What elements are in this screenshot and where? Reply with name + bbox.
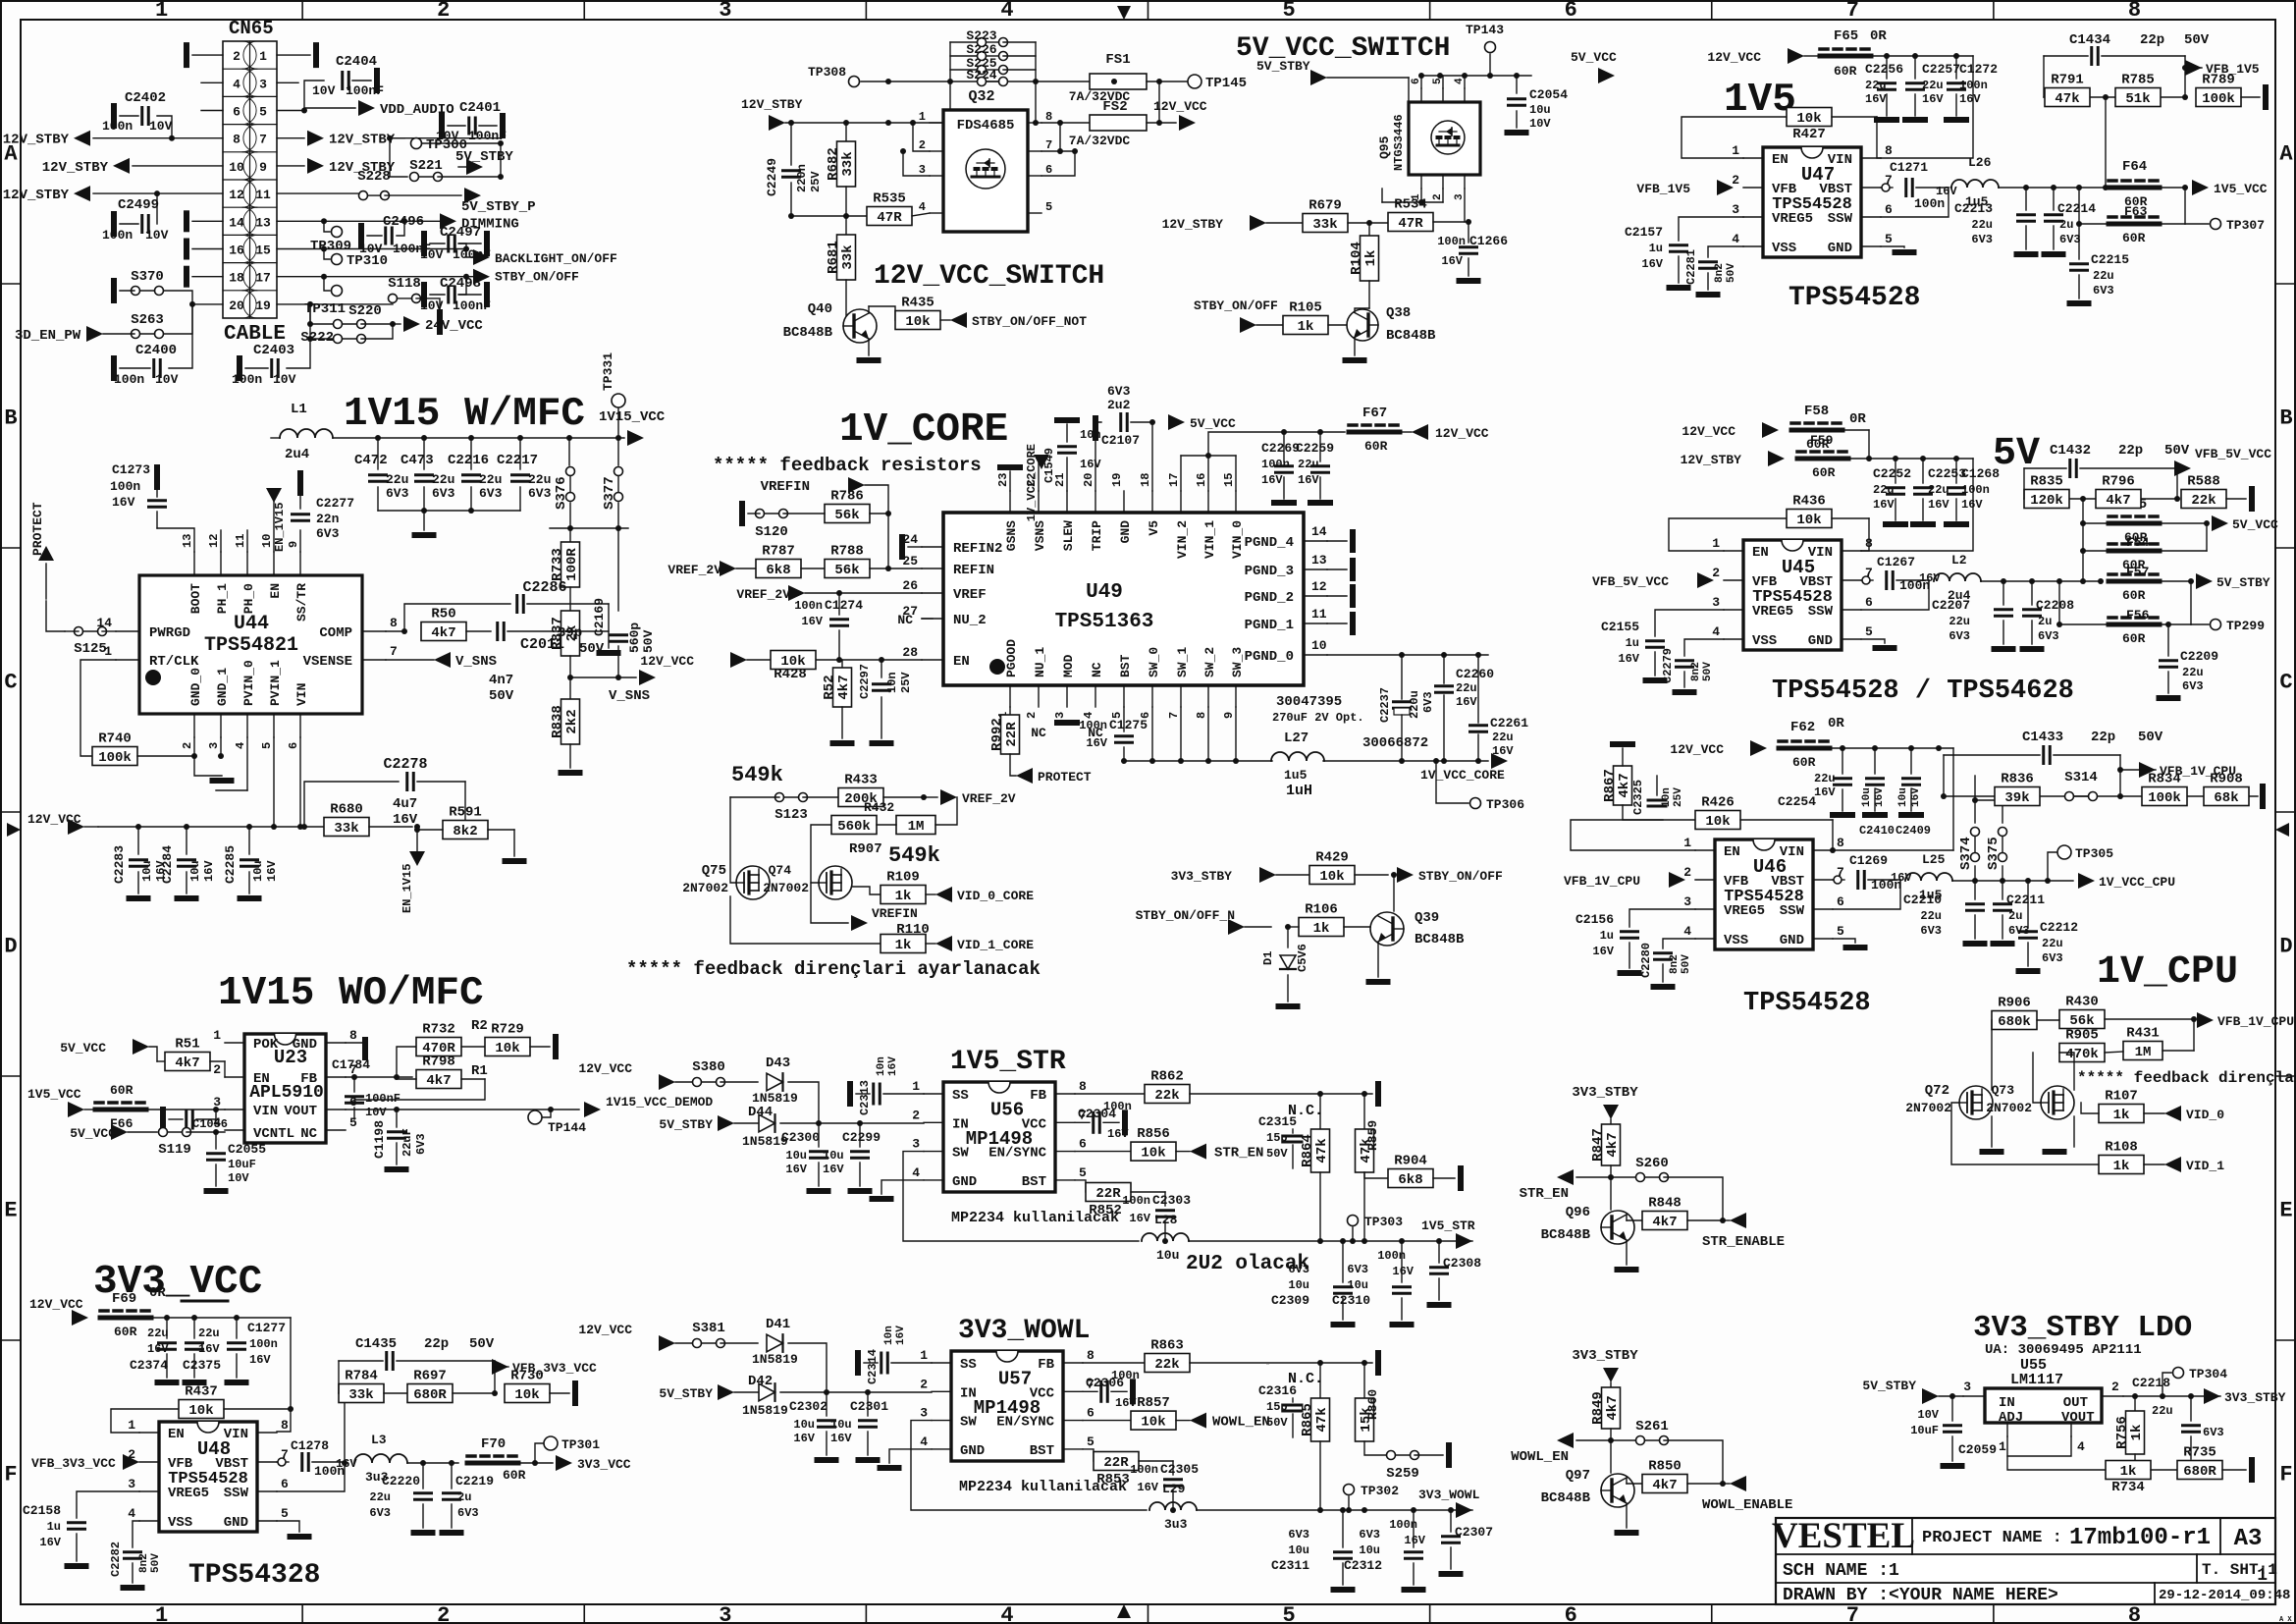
svg-text:4k7: 4k7 <box>175 1056 199 1071</box>
svg-text:1V5_VCC: 1V5_VCC <box>2214 182 2268 196</box>
svg-text:22u: 22u <box>1920 909 1942 923</box>
svg-text:60R: 60R <box>2122 231 2146 245</box>
svg-text:C2280: C2280 <box>1639 943 1653 978</box>
svg-text:29-12-2014_09:48: 29-12-2014_09:48 <box>2159 1588 2290 1603</box>
svg-text:C2316: C2316 <box>1258 1383 1297 1398</box>
svg-text:C1278: C1278 <box>291 1438 329 1453</box>
svg-text:R435: R435 <box>901 296 934 311</box>
svg-text:2N7002: 2N7002 <box>1905 1101 1951 1115</box>
svg-text:C2307: C2307 <box>1455 1525 1493 1540</box>
svg-text:FS2: FS2 <box>1102 99 1127 115</box>
svg-text:33k: 33k <box>840 244 856 269</box>
svg-text:S119: S119 <box>158 1142 191 1158</box>
svg-text:22u: 22u <box>198 1326 220 1340</box>
svg-text:C2211: C2211 <box>2006 893 2045 907</box>
svg-text:50V: 50V <box>2138 730 2163 745</box>
svg-text:C2059: C2059 <box>1958 1442 1997 1457</box>
svg-text:39k: 39k <box>2004 790 2029 806</box>
svg-text:25V: 25V <box>809 171 823 192</box>
svg-text:C2309: C2309 <box>1271 1293 1309 1308</box>
svg-text:TPS54528 / TPS54628: TPS54528 / TPS54628 <box>1772 677 2074 706</box>
svg-text:16V: 16V <box>147 1342 169 1356</box>
svg-text:16V: 16V <box>202 860 216 882</box>
svg-text:B: B <box>2279 406 2292 431</box>
svg-text:L29: L29 <box>1162 1482 1186 1496</box>
svg-text:6: 6 <box>287 742 300 749</box>
svg-text:VFB_1V_CPU: VFB_1V_CPU <box>2160 764 2236 779</box>
svg-text:12: 12 <box>207 534 221 548</box>
svg-text:30047395: 30047395 <box>1276 694 1342 710</box>
svg-text:2N7002: 2N7002 <box>1986 1101 2032 1115</box>
svg-text:A3: A3 <box>2234 1526 2263 1552</box>
svg-text:C2498: C2498 <box>440 276 481 292</box>
svg-text:3: 3 <box>919 163 926 177</box>
svg-text:SS: SS <box>960 1357 977 1373</box>
svg-text:3V3_STBY: 3V3_STBY <box>1171 869 1233 884</box>
svg-text:VFB_1V5: VFB_1V5 <box>2206 62 2260 77</box>
svg-text:4k7: 4k7 <box>1617 773 1632 797</box>
svg-text:BC848B: BC848B <box>1541 1490 1591 1506</box>
svg-text:C473: C473 <box>400 453 434 468</box>
svg-text:2k2: 2k2 <box>564 709 580 733</box>
svg-text:12V_STBY: 12V_STBY <box>741 97 803 112</box>
svg-text:6: 6 <box>233 105 240 120</box>
svg-text:PROTECT: PROTECT <box>1038 770 1092 785</box>
svg-text:TPS54528: TPS54528 <box>1752 588 1833 607</box>
svg-text:C2257: C2257 <box>1922 62 1960 77</box>
svg-text:470k: 470k <box>2065 1047 2099 1062</box>
svg-text:PGND_2: PGND_2 <box>1245 590 1294 606</box>
svg-text:3V3_STBY LDO: 3V3_STBY LDO <box>1973 1311 2192 1345</box>
svg-text:C2155: C2155 <box>1601 620 1639 634</box>
svg-text:Q95: Q95 <box>1377 135 1392 159</box>
svg-text:3: 3 <box>1732 202 1739 217</box>
svg-text:C2156: C2156 <box>1575 912 1614 927</box>
svg-text:10V: 10V <box>1529 117 1551 131</box>
svg-text:10V: 10V <box>155 372 179 387</box>
svg-text:22u: 22u <box>1971 218 1993 232</box>
svg-text:4: 4 <box>912 1165 920 1180</box>
svg-text:16V: 16V <box>1261 473 1283 487</box>
svg-text:549k: 549k <box>731 763 783 787</box>
svg-text:Q73: Q73 <box>1992 1083 2015 1098</box>
svg-text:10uF: 10uF <box>1910 1424 1939 1437</box>
svg-text:5: 5 <box>1885 232 1893 246</box>
svg-text:U56: U56 <box>990 1100 1024 1121</box>
svg-text:R859: R859 <box>1365 1120 1380 1151</box>
svg-text:C2215: C2215 <box>2091 252 2129 267</box>
svg-text:VREF_2V: VREF_2V <box>667 563 721 577</box>
svg-text:R734: R734 <box>2111 1480 2145 1495</box>
svg-text:C2278: C2278 <box>383 756 427 773</box>
svg-text:S125: S125 <box>74 641 107 657</box>
svg-text:VSS: VSS <box>1752 633 1777 649</box>
svg-text:100nF: 100nF <box>346 83 384 98</box>
svg-text:12V_STBY: 12V_STBY <box>1681 453 1742 467</box>
svg-text:6V3: 6V3 <box>2042 951 2063 965</box>
svg-text:8: 8 <box>1837 836 1844 850</box>
svg-text:20: 20 <box>1082 473 1095 487</box>
svg-text:22k: 22k <box>1154 1088 1179 1104</box>
svg-text:Q97: Q97 <box>1566 1468 1590 1484</box>
svg-text:2: 2 <box>1432 193 1444 200</box>
svg-text:C2403: C2403 <box>253 343 294 358</box>
svg-text:16V: 16V <box>1961 498 1983 512</box>
svg-text:FS1: FS1 <box>1105 52 1130 68</box>
svg-text:10k: 10k <box>905 314 930 330</box>
svg-text:16V: 16V <box>393 812 418 828</box>
svg-text:R729: R729 <box>491 1022 524 1038</box>
svg-text:GND_1: GND_1 <box>215 668 230 706</box>
svg-text:VIN: VIN <box>253 1104 278 1119</box>
svg-text:PWRGD: PWRGD <box>149 625 190 641</box>
svg-text:5: 5 <box>259 105 267 120</box>
svg-text:1: 1 <box>920 1348 928 1363</box>
svg-text:12V_VCC: 12V_VCC <box>27 812 81 827</box>
svg-text:TRIP: TRIP <box>1090 520 1104 551</box>
svg-text:12V_STBY: 12V_STBY <box>3 133 70 148</box>
svg-text:1k: 1k <box>2129 1425 2145 1441</box>
svg-text:4: 4 <box>1732 232 1739 246</box>
svg-text:220n: 220n <box>795 164 809 192</box>
svg-text:680k: 680k <box>1998 1014 2031 1030</box>
svg-text:VFB_5V_VCC: VFB_5V_VCC <box>1592 574 1669 589</box>
svg-text:16V: 16V <box>1137 1481 1158 1494</box>
svg-text:F54: F54 <box>2126 535 2150 550</box>
svg-text:10u: 10u <box>793 1418 815 1432</box>
svg-text:3: 3 <box>719 1603 731 1624</box>
svg-text:11: 11 <box>1311 607 1327 622</box>
svg-text:F63: F63 <box>2124 204 2148 219</box>
svg-text:7A/32VDC: 7A/32VDC <box>1069 134 1131 148</box>
svg-text:19: 19 <box>1110 473 1124 487</box>
svg-text:100n: 100n <box>249 1337 278 1351</box>
svg-text:33k: 33k <box>348 1387 373 1403</box>
svg-text:C2400: C2400 <box>135 343 177 358</box>
svg-text:2: 2 <box>233 49 240 64</box>
svg-text:6V3: 6V3 <box>2093 284 2114 298</box>
svg-text:10u: 10u <box>1897 787 1909 807</box>
svg-text:S259: S259 <box>1386 1466 1419 1482</box>
svg-text:2: 2 <box>1732 173 1739 188</box>
svg-text:12V_VCC: 12V_VCC <box>578 1061 632 1076</box>
svg-text:0R: 0R <box>1828 716 1844 731</box>
svg-text:C2259: C2259 <box>1296 441 1334 456</box>
svg-text:BC848B: BC848B <box>1386 328 1436 344</box>
svg-text:0R: 0R <box>1870 28 1887 44</box>
svg-text:3: 3 <box>912 1137 920 1152</box>
svg-text:C5V6: C5V6 <box>1296 944 1309 972</box>
svg-text:F56: F56 <box>2126 608 2150 623</box>
svg-text:C1273: C1273 <box>112 462 150 477</box>
svg-text:6V3: 6V3 <box>1920 924 1942 938</box>
svg-text:100n: 100n <box>102 119 133 134</box>
svg-text:V_SNS: V_SNS <box>455 654 497 670</box>
svg-text:R847: R847 <box>1590 1128 1606 1162</box>
svg-text:EN_1V15: EN_1V15 <box>273 503 287 552</box>
svg-text:S381: S381 <box>692 1321 725 1336</box>
svg-text:C2107: C2107 <box>1101 433 1140 448</box>
svg-text:100k: 100k <box>2148 790 2181 806</box>
svg-text:R786: R786 <box>830 489 864 505</box>
svg-text:7: 7 <box>1846 0 1859 23</box>
svg-text:S263: S263 <box>131 312 164 328</box>
svg-text:16V: 16V <box>1873 498 1895 512</box>
svg-text:TP308: TP308 <box>808 65 846 80</box>
svg-text:60R: 60R <box>2122 631 2146 646</box>
svg-text:8n2: 8n2 <box>1669 954 1681 974</box>
svg-text:R105: R105 <box>1289 300 1322 316</box>
svg-text:6V3: 6V3 <box>1971 233 1993 246</box>
svg-text:22u: 22u <box>1865 79 1887 92</box>
svg-text:R681: R681 <box>826 241 841 274</box>
svg-text:1V_VCC_CORE: 1V_VCC_CORE <box>1025 444 1039 521</box>
svg-text:U48: U48 <box>197 1438 231 1460</box>
svg-text:F67: F67 <box>1362 406 1387 421</box>
svg-text:C472: C472 <box>354 453 388 468</box>
svg-text:APL5910: APL5910 <box>249 1083 324 1103</box>
svg-text:U49: U49 <box>1086 581 1123 604</box>
svg-text:C2207: C2207 <box>1932 598 1970 613</box>
svg-text:1V15 W/MFC: 1V15 W/MFC <box>344 392 585 437</box>
svg-text:VREFIN: VREFIN <box>872 906 918 921</box>
svg-text:1k: 1k <box>2120 1464 2137 1480</box>
svg-text:C1433: C1433 <box>2022 730 2063 745</box>
svg-text:3: 3 <box>1963 1380 1971 1394</box>
svg-text:C2237: C2237 <box>1378 687 1392 723</box>
svg-text:3: 3 <box>920 1406 928 1421</box>
svg-text:3: 3 <box>128 1477 135 1491</box>
svg-text:2: 2 <box>1025 712 1039 719</box>
svg-text:C2252: C2252 <box>1873 466 1911 481</box>
svg-text:BC848B: BC848B <box>1415 932 1465 947</box>
svg-text:0R: 0R <box>1849 411 1866 427</box>
svg-text:5: 5 <box>260 742 274 749</box>
svg-text:EN: EN <box>268 583 283 599</box>
svg-text:10u: 10u <box>1288 1278 1309 1292</box>
svg-text:C2284: C2284 <box>160 845 175 884</box>
svg-text:16V: 16V <box>801 615 823 628</box>
svg-text:16V: 16V <box>1592 945 1614 958</box>
svg-text:R679: R679 <box>1308 198 1342 214</box>
svg-text:12: 12 <box>229 188 244 202</box>
svg-text:R865: R865 <box>1300 1403 1315 1436</box>
svg-text:BST: BST <box>1030 1443 1054 1459</box>
svg-text:L27: L27 <box>1284 731 1308 746</box>
svg-text:TPS54328: TPS54328 <box>188 1560 320 1591</box>
svg-text:FB: FB <box>1030 1088 1046 1104</box>
svg-text:3V3_WOWL: 3V3_WOWL <box>958 1316 1090 1346</box>
svg-text:TP309: TP309 <box>310 239 351 254</box>
svg-text:5: 5 <box>1045 200 1052 214</box>
svg-text:13: 13 <box>181 534 194 548</box>
svg-text:22u: 22u <box>2182 666 2204 679</box>
svg-text:100n: 100n <box>102 228 133 243</box>
svg-text:1: 1 <box>912 1079 920 1094</box>
svg-text:R591: R591 <box>449 805 482 821</box>
svg-text:GND: GND <box>1118 520 1133 544</box>
svg-text:10n: 10n <box>883 1326 895 1345</box>
svg-text:C2260: C2260 <box>1456 667 1494 681</box>
svg-text:47R: 47R <box>877 210 902 226</box>
svg-text:3D_EN_PW: 3D_EN_PW <box>15 328 81 344</box>
svg-text:22u: 22u <box>2152 1404 2173 1418</box>
svg-text:100n: 100n <box>114 372 144 387</box>
svg-text:1V_VCC_CORE: 1V_VCC_CORE <box>1420 768 1505 783</box>
svg-text:VFB_1V5: VFB_1V5 <box>1636 182 1690 196</box>
svg-text:PGOOD: PGOOD <box>1004 639 1019 677</box>
svg-text:IN: IN <box>1999 1395 2015 1411</box>
svg-text:S377: S377 <box>602 476 617 510</box>
svg-text:R433: R433 <box>844 773 878 788</box>
svg-text:8: 8 <box>349 1028 357 1043</box>
svg-text:A X H: A X H <box>2279 1616 2296 1624</box>
svg-text:12V_VCC: 12V_VCC <box>1670 742 1724 757</box>
svg-text:R733: R733 <box>550 548 565 581</box>
svg-text:1k: 1k <box>2113 1108 2130 1123</box>
svg-text:VIN_0: VIN_0 <box>1230 520 1245 559</box>
svg-text:6V3: 6V3 <box>414 1133 428 1155</box>
svg-text:560k: 560k <box>837 819 871 835</box>
svg-text:16: 16 <box>229 244 244 258</box>
svg-text:50V: 50V <box>469 1336 495 1352</box>
svg-text:11: 11 <box>234 534 247 548</box>
svg-text:16V: 16V <box>1404 1534 1425 1547</box>
svg-text:L26: L26 <box>1968 155 1992 170</box>
svg-text:EN: EN <box>1772 152 1789 168</box>
svg-text:C2261: C2261 <box>1490 716 1528 731</box>
svg-text:R992: R992 <box>989 718 1005 751</box>
svg-text:6: 6 <box>1045 163 1052 177</box>
svg-text:2u: 2u <box>2059 218 2073 232</box>
svg-text:10u: 10u <box>830 1418 852 1432</box>
svg-text:SW_3: SW_3 <box>1230 647 1245 677</box>
svg-text:10k: 10k <box>1796 111 1821 127</box>
svg-text:R50: R50 <box>431 607 455 623</box>
svg-text:2: 2 <box>213 1062 221 1077</box>
svg-text:6V3: 6V3 <box>316 526 340 541</box>
svg-text:16V: 16V <box>1641 257 1663 271</box>
svg-text:1V_CPU: 1V_CPU <box>2097 950 2238 995</box>
svg-text:10k: 10k <box>1141 1146 1165 1162</box>
svg-text:2u: 2u <box>2038 615 2052 628</box>
svg-text:EN: EN <box>1724 844 1740 860</box>
svg-text:SW_0: SW_0 <box>1147 647 1161 677</box>
svg-text:10V: 10V <box>273 372 296 387</box>
svg-text:L28: L28 <box>1154 1213 1178 1227</box>
svg-text:50V: 50V <box>1266 1147 1288 1161</box>
svg-text:17mb100-r1: 17mb100-r1 <box>2069 1525 2211 1551</box>
svg-text:10u: 10u <box>1156 1248 1179 1263</box>
svg-text:18: 18 <box>229 271 244 286</box>
svg-text:STR_EN: STR_EN <box>1520 1186 1569 1202</box>
svg-text:C2249: C2249 <box>765 158 779 196</box>
svg-text:22p: 22p <box>424 1336 449 1352</box>
svg-text:16V: 16V <box>1456 695 1477 709</box>
svg-text:F69: F69 <box>112 1291 136 1307</box>
svg-text:C2311: C2311 <box>1271 1558 1309 1573</box>
svg-text:8: 8 <box>1885 143 1893 158</box>
svg-text:TPS54528: TPS54528 <box>1743 989 1871 1018</box>
svg-text:VSS: VSS <box>1724 933 1748 948</box>
svg-text:270uF 2V Opt.: 270uF 2V Opt. <box>1272 711 1364 725</box>
svg-text:6V3: 6V3 <box>479 486 503 501</box>
svg-text:SS: SS <box>952 1088 969 1104</box>
svg-text:10n: 10n <box>1661 787 1673 807</box>
svg-text:R682: R682 <box>826 147 841 181</box>
svg-text:C2285: C2285 <box>223 845 238 884</box>
svg-text:50V: 50V <box>150 1553 162 1573</box>
svg-text:10u: 10u <box>823 1149 844 1163</box>
svg-text:SW_2: SW_2 <box>1202 647 1217 677</box>
svg-text:TP301: TP301 <box>561 1437 600 1452</box>
svg-text:BC848B: BC848B <box>1541 1227 1591 1243</box>
svg-text:7: 7 <box>1045 138 1052 152</box>
svg-text:22u: 22u <box>147 1326 169 1340</box>
svg-text:1: 1 <box>128 1418 135 1433</box>
svg-text:D1: D1 <box>1261 951 1275 965</box>
svg-text:16V: 16V <box>1115 1396 1137 1410</box>
svg-text:R788: R788 <box>830 544 864 560</box>
svg-text:100n: 100n <box>232 372 262 387</box>
svg-text:5V_STBY: 5V_STBY <box>1256 59 1310 74</box>
svg-text:1V5_VCC: 1V5_VCC <box>27 1087 81 1102</box>
svg-text:EN: EN <box>168 1427 185 1442</box>
svg-text:R796: R796 <box>2102 474 2135 490</box>
svg-text:C2308: C2308 <box>1443 1256 1481 1271</box>
svg-text:C1272: C1272 <box>1959 62 1998 77</box>
svg-text:PGND_1: PGND_1 <box>1245 618 1294 633</box>
svg-text:2: 2 <box>919 138 926 152</box>
svg-text:1V15 WO/MFC: 1V15 WO/MFC <box>218 971 484 1016</box>
svg-text:33k: 33k <box>840 151 856 176</box>
svg-text:16V: 16V <box>1874 787 1886 807</box>
svg-text:4: 4 <box>920 1435 928 1449</box>
svg-text:560p: 560p <box>627 623 642 653</box>
svg-text:F57: F57 <box>2126 565 2149 579</box>
svg-text:R867: R867 <box>1602 769 1618 802</box>
svg-text:NC: NC <box>1031 726 1046 740</box>
svg-text:5: 5 <box>349 1115 357 1130</box>
svg-text:1k: 1k <box>2113 1159 2130 1174</box>
svg-text:GND: GND <box>1780 933 1804 948</box>
svg-text:C: C <box>2279 671 2292 695</box>
svg-text:4k7: 4k7 <box>1605 1132 1621 1157</box>
svg-text:R906: R906 <box>1998 996 2031 1011</box>
svg-text:8k2: 8k2 <box>453 824 477 839</box>
svg-text:16V: 16V <box>1492 744 1514 758</box>
svg-text:UA: 30069495 AP2111: UA: 30069495 AP2111 <box>1985 1342 2142 1358</box>
svg-text:5V_STBY_P: 5V_STBY_P <box>461 199 536 215</box>
svg-text:NC: NC <box>897 613 913 627</box>
svg-text:EN: EN <box>1752 545 1769 561</box>
svg-text:TPS54528: TPS54528 <box>1724 888 1804 906</box>
svg-text:S260: S260 <box>1635 1156 1669 1171</box>
svg-text:R110: R110 <box>896 922 930 938</box>
svg-text:S374: S374 <box>1958 837 1974 870</box>
svg-text:S118: S118 <box>388 276 421 292</box>
svg-text:TP307: TP307 <box>2226 218 2265 233</box>
svg-text:PGND_0: PGND_0 <box>1245 649 1294 665</box>
svg-text:4: 4 <box>919 200 926 214</box>
svg-text:47k: 47k <box>1314 1407 1330 1432</box>
svg-text:50V: 50V <box>2184 32 2210 48</box>
svg-text:5V_STBY: 5V_STBY <box>659 1386 713 1401</box>
svg-text:R784: R784 <box>345 1369 378 1384</box>
svg-text:R106: R106 <box>1305 902 1338 918</box>
svg-text:6V3: 6V3 <box>1347 1263 1368 1276</box>
svg-text:U47: U47 <box>1801 164 1835 186</box>
